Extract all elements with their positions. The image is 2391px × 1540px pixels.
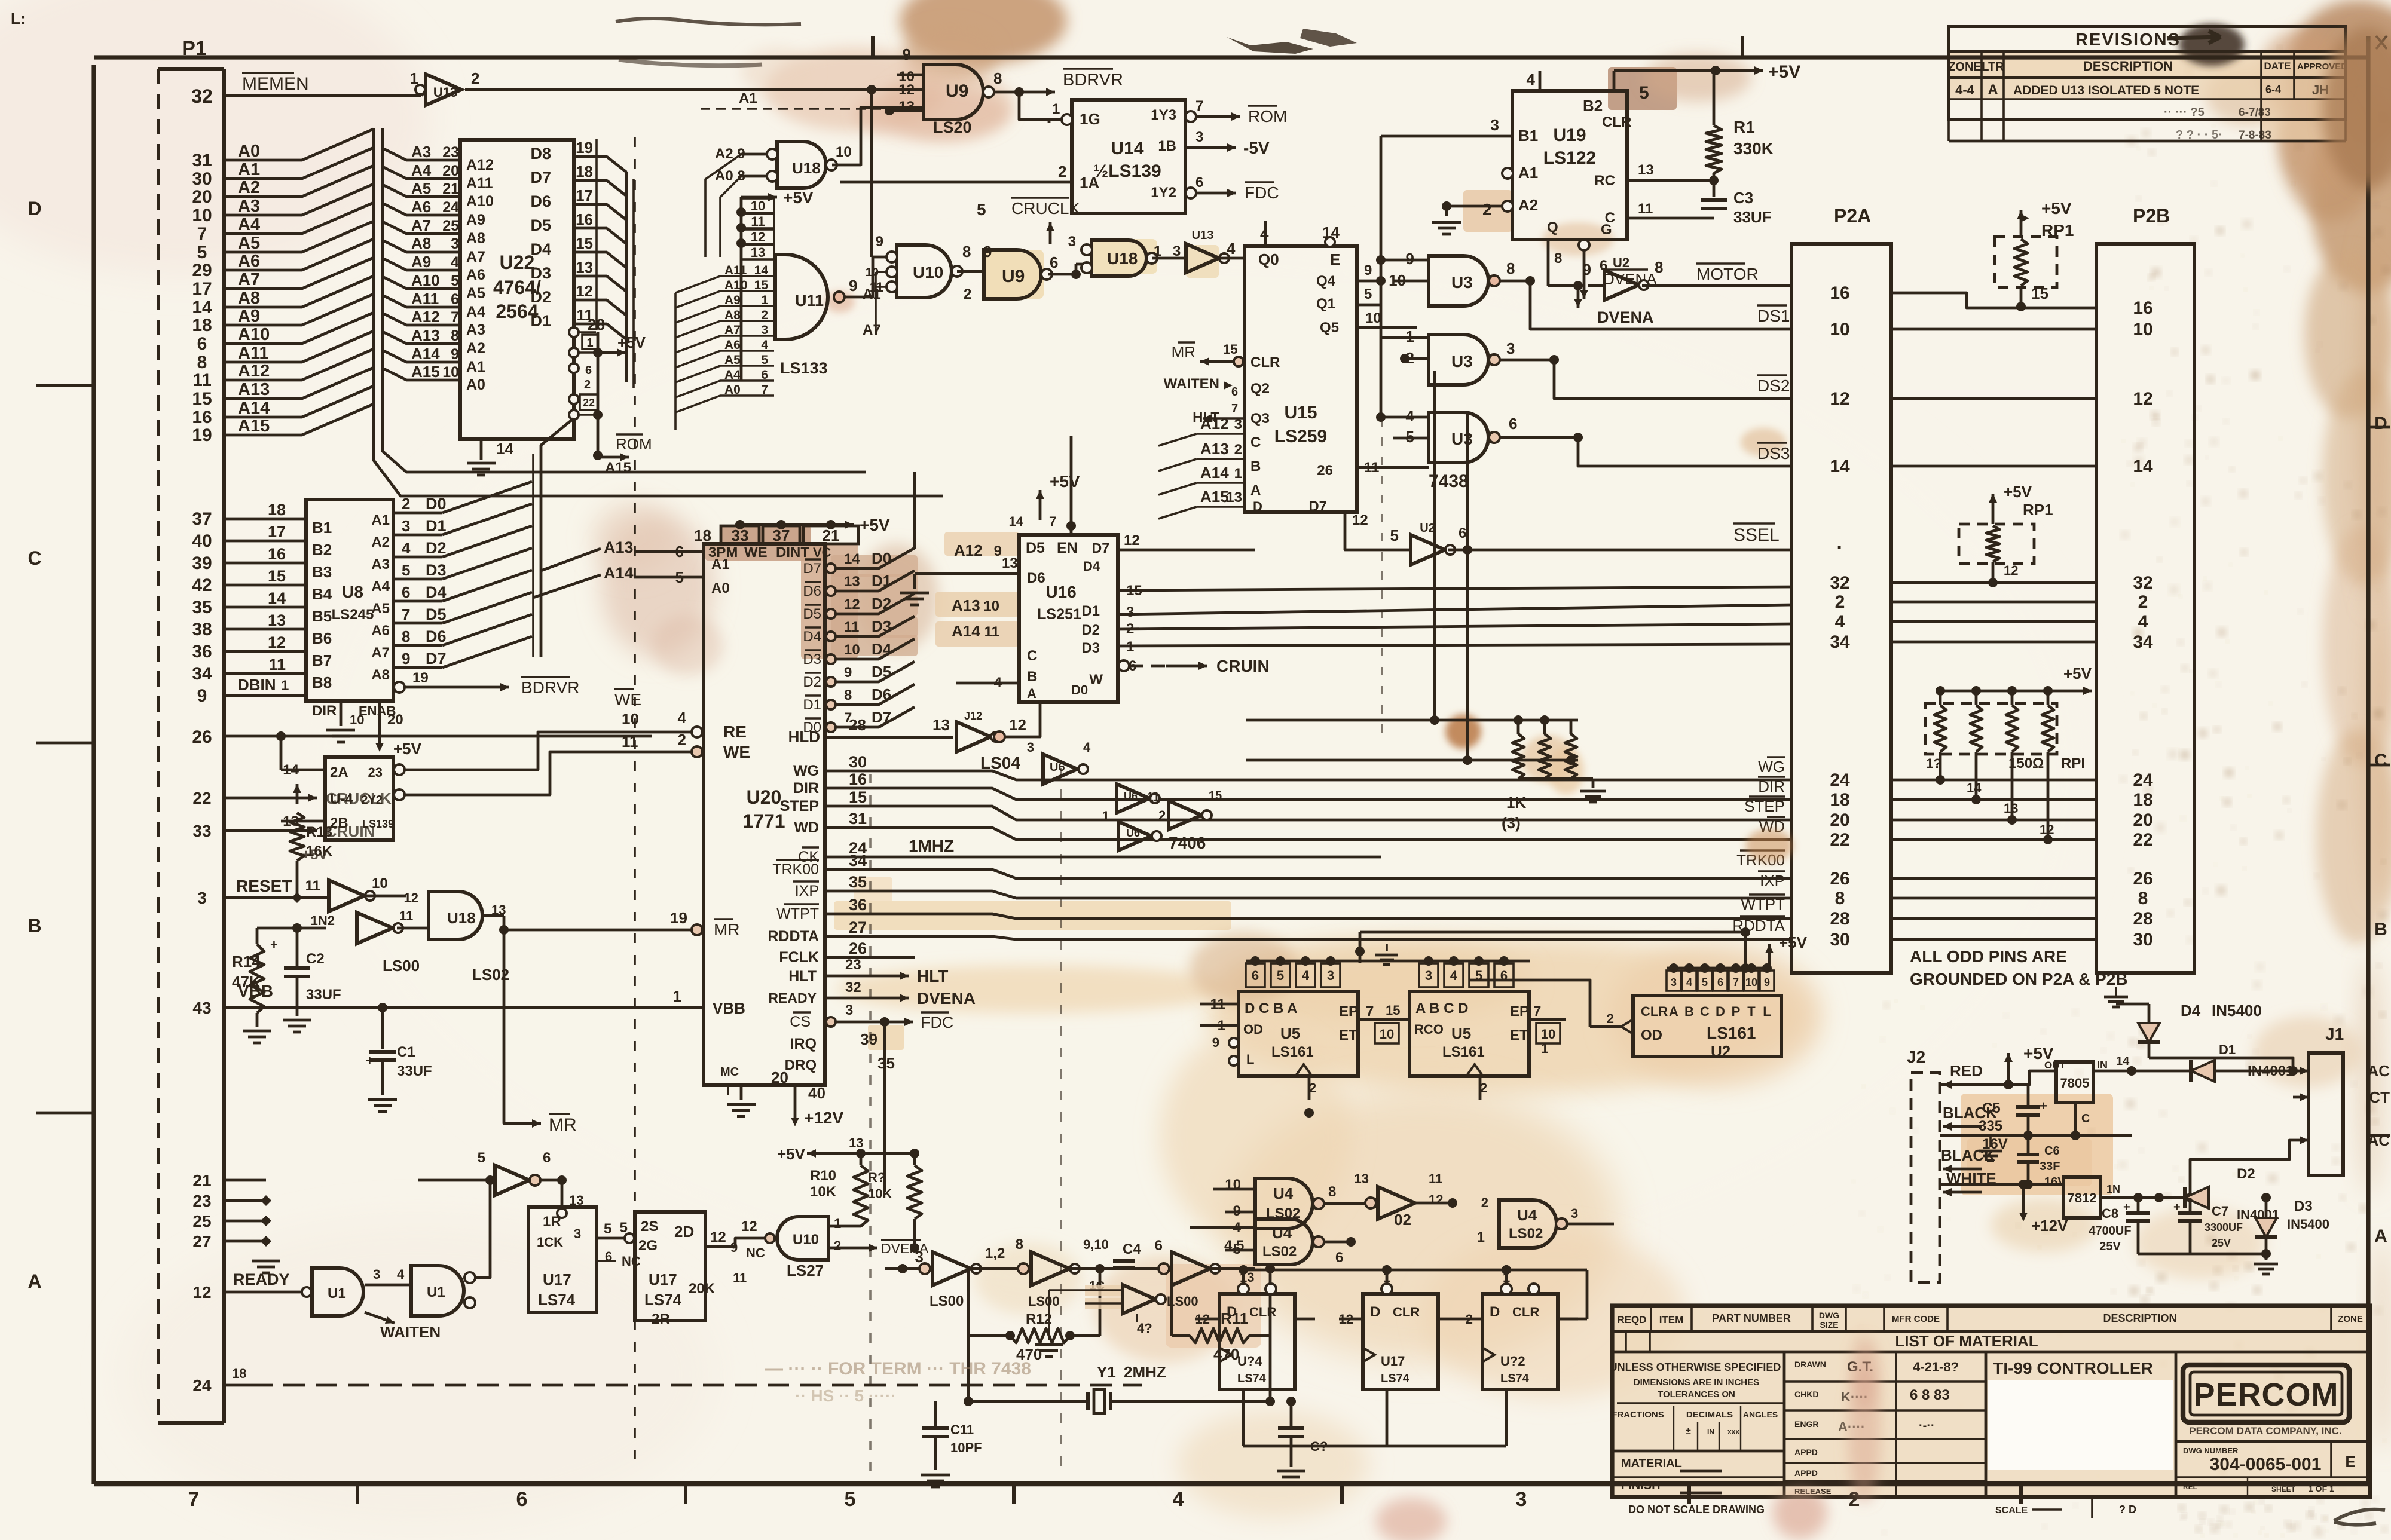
svg-text:FDC: FDC [1245,183,1279,202]
svg-text:8: 8 [197,353,207,372]
svg-text:7: 7 [1366,1003,1374,1019]
svg-text:DIR: DIR [793,780,819,797]
svg-text:U2: U2 [1613,255,1629,270]
svg-text:HLD: HLD [788,728,820,746]
svg-text:B7: B7 [312,651,332,669]
svg-text:CRUIN: CRUIN [1216,657,1270,675]
svg-text:9: 9 [451,346,459,363]
svg-text:6: 6 [1195,174,1203,191]
svg-text:2: 2 [402,495,410,513]
svg-text:6-4: 6-4 [2265,84,2281,96]
svg-text:7812: 7812 [2068,1190,2097,1205]
svg-text:6 8 83: 6 8 83 [1910,1387,1950,1403]
svg-text:7: 7 [1231,402,1238,415]
svg-text:BDRVR: BDRVR [1063,71,1123,90]
svg-text:1: 1 [673,987,681,1005]
svg-text:12: 12 [751,229,765,244]
svg-text:XXX: XXX [1727,1429,1739,1436]
svg-text:D0: D0 [1071,682,1088,697]
svg-text:10: 10 [350,712,364,727]
svg-text:9: 9 [844,665,852,681]
svg-text:Q3: Q3 [1250,411,1270,427]
svg-text:FCLK: FCLK [779,949,819,966]
svg-text:7: 7 [451,309,459,326]
svg-text:10: 10 [372,875,388,892]
svg-text:U17: U17 [649,1270,677,1288]
svg-text:11: 11 [1147,791,1160,804]
svg-text:D5: D5 [426,605,447,623]
svg-text:1K: 1K [1506,794,1526,812]
svg-text:10: 10 [2133,320,2152,339]
svg-text:2: 2 [761,308,768,322]
svg-text:8: 8 [1554,250,1562,267]
svg-text:9: 9 [197,686,207,706]
svg-text:R10: R10 [810,1168,836,1184]
svg-text:36: 36 [192,642,212,662]
svg-text:2: 2 [964,286,971,302]
svg-text:MOTOR: MOTOR [1696,265,1759,283]
svg-text:37: 37 [192,509,212,529]
svg-text:38: 38 [192,620,212,639]
svg-text:2: 2 [1058,163,1066,180]
svg-text:30: 30 [849,753,867,771]
svg-text:10: 10 [1380,1027,1394,1042]
svg-text:3: 3 [1234,417,1242,433]
svg-text:ADDED U13 ISOLATED 5 NOTE: ADDED U13 ISOLATED 5 NOTE [2013,84,2199,97]
svg-text:1G: 1G [1080,110,1100,128]
svg-text:4-4: 4-4 [1955,82,1975,97]
svg-text:3: 3 [1571,1206,1578,1221]
svg-text:22: 22 [583,397,595,409]
svg-text:WD: WD [794,819,819,836]
svg-text:DIMENSIONS ARE IN INCHES: DIMENSIONS ARE IN INCHES [1634,1377,1759,1388]
svg-text:+5V: +5V [777,1145,806,1163]
svg-text:B1: B1 [1518,127,1538,145]
svg-text:U11: U11 [795,292,824,310]
svg-text:11: 11 [268,656,286,673]
svg-text:CRUIN: CRUIN [326,822,375,840]
svg-text:P: P [1732,1004,1741,1019]
svg-text:D4: D4 [530,240,551,258]
svg-text:TI-99 CONTROLLER: TI-99 CONTROLLER [1993,1359,2153,1377]
svg-text:P1: P1 [182,37,207,60]
svg-text:U19: U19 [1553,125,1586,145]
svg-text:14: 14 [754,264,769,277]
svg-text:LS245: LS245 [332,607,374,623]
svg-text:40: 40 [808,1084,825,1102]
svg-text:A0: A0 [711,580,730,596]
svg-text:A7: A7 [411,216,431,234]
svg-text:D2: D2 [426,539,447,557]
svg-text:J1: J1 [2325,1025,2344,1043]
svg-text:4: 4 [761,338,768,352]
svg-text:A8: A8 [238,289,260,308]
svg-text:8: 8 [1328,1184,1336,1200]
svg-text:1MHZ: 1MHZ [909,837,954,855]
svg-text:6: 6 [451,291,459,308]
svg-text:A: A [1027,686,1036,701]
svg-text:23: 23 [192,1192,211,1210]
svg-text:12: 12 [1124,532,1140,549]
svg-text:A6: A6 [238,252,260,271]
svg-text:A6: A6 [411,198,431,216]
svg-text:D3: D3 [803,651,821,668]
svg-text:RPI: RPI [2061,755,2085,771]
svg-text:L: L [1246,1052,1254,1067]
svg-text:A8: A8 [411,234,431,252]
svg-text:U18: U18 [1107,249,1138,268]
svg-text:9: 9 [849,277,857,295]
svg-text:42: 42 [192,575,212,595]
svg-text:11: 11 [751,214,765,229]
svg-text:29: 29 [192,261,212,280]
svg-text:A7: A7 [863,322,881,338]
svg-text:D2: D2 [1081,622,1100,638]
svg-text:IRQ: IRQ [790,1036,817,1052]
svg-text:5: 5 [620,1220,628,1236]
svg-text:15: 15 [1223,342,1237,357]
svg-text:— ··· ·· FOR TERM ··· THR 74: — ··· ·· FOR TERM ··· THR 7438 [765,1359,1031,1379]
svg-text:A9: A9 [466,212,485,228]
svg-text:·· HS ·· 5 ·····: ·· HS ·· 5 ····· [795,1386,897,1405]
svg-text:MC: MC [720,1066,739,1079]
svg-text:B: B [2374,920,2387,939]
svg-text:? D: ? D [2119,1504,2136,1515]
svg-text:DWG: DWG [1819,1311,1839,1320]
svg-text:LS133: LS133 [780,359,828,377]
svg-text:9: 9 [903,45,911,63]
svg-text:3: 3 [1327,968,1334,983]
svg-text:D7: D7 [803,561,821,577]
svg-text:1CK: 1CK [537,1235,563,1250]
svg-text:A13: A13 [604,538,634,556]
svg-text:8: 8 [993,69,1002,87]
svg-text:D5: D5 [803,606,821,622]
svg-text:15: 15 [268,567,286,585]
svg-text:18: 18 [1830,790,1849,810]
svg-text:D3: D3 [426,561,447,579]
svg-text:WE: WE [723,743,750,761]
svg-text:16: 16 [192,408,212,427]
svg-text:U2: U2 [1420,522,1435,535]
svg-text:C7: C7 [2212,1204,2228,1218]
svg-text:16: 16 [849,770,867,788]
svg-text:U17: U17 [1381,1354,1405,1368]
svg-text:D6: D6 [803,583,821,599]
svg-text:20: 20 [1830,810,1849,830]
svg-text:D: D [1716,1004,1725,1019]
svg-text:6: 6 [543,1150,551,1166]
svg-text:A13: A13 [411,326,440,344]
svg-text:1: 1 [761,293,768,307]
svg-text:A8: A8 [371,667,390,683]
svg-text:A13: A13 [1200,440,1229,458]
svg-text:22: 22 [1830,830,1849,850]
svg-text:9: 9 [1764,976,1770,988]
svg-text:9: 9 [876,234,883,250]
svg-text:30: 30 [192,169,212,189]
svg-text:23: 23 [368,765,383,780]
svg-text:U3: U3 [1451,430,1473,448]
svg-text:13: 13 [751,245,765,260]
svg-text:·: · [1836,537,1843,559]
svg-text:A11: A11 [466,175,493,192]
svg-text:A15: A15 [1200,488,1229,506]
svg-text:B1: B1 [312,519,332,537]
svg-text:1: 1 [586,336,593,350]
svg-text:35: 35 [877,1054,895,1072]
svg-text:A4: A4 [466,304,485,320]
svg-text:22: 22 [2133,830,2152,850]
svg-text:OD: OD [1243,1022,1263,1037]
svg-text:22: 22 [192,789,211,807]
svg-text:WAITEN: WAITEN [380,1323,441,1341]
svg-text:2: 2 [1481,1195,1488,1210]
svg-text:30: 30 [1830,930,1849,950]
svg-text:C: C [1605,210,1615,226]
svg-text:A2: A2 [371,534,390,550]
svg-text:AC: AC [2367,1062,2390,1080]
svg-text:DS1: DS1 [1757,307,1790,325]
svg-text:9: 9 [402,650,410,668]
svg-text:15: 15 [192,389,212,409]
svg-text:1: 1 [281,678,289,694]
svg-text:14: 14 [496,440,513,458]
svg-text:R1: R1 [1733,118,1755,136]
svg-text:A5: A5 [238,234,260,253]
svg-text:1N2: 1N2 [311,913,335,928]
svg-text:3300UF: 3300UF [2205,1221,2243,1233]
svg-text:24: 24 [192,1376,212,1395]
svg-text:MR: MR [549,1115,577,1135]
svg-text:5: 5 [1277,968,1284,983]
svg-text:13: 13 [849,1135,863,1150]
svg-text:10: 10 [983,598,999,614]
svg-text:1B: 1B [1158,138,1176,154]
svg-text:13: 13 [1638,162,1654,178]
svg-text:A14: A14 [238,399,270,418]
svg-text:A7: A7 [371,645,390,661]
svg-text:20: 20 [387,712,403,728]
svg-text:43: 43 [192,999,211,1017]
svg-text:3: 3 [574,1226,581,1241]
svg-text:DS2: DS2 [1757,376,1790,395]
svg-text:2: 2 [678,731,686,749]
svg-text:Y1: Y1 [1097,1363,1116,1381]
svg-text:E: E [1330,250,1340,268]
svg-text:7: 7 [402,605,410,623]
svg-text:10: 10 [836,144,852,160]
svg-text:34: 34 [1830,632,1850,652]
svg-text:4700UF: 4700UF [2089,1224,2131,1238]
svg-text:3: 3 [1195,129,1203,145]
svg-text:A5: A5 [466,285,485,302]
svg-text:5: 5 [845,1488,856,1511]
svg-text:DIR: DIR [312,703,337,719]
svg-text:A15: A15 [605,460,631,476]
svg-text:33UF: 33UF [306,987,341,1003]
svg-text:E: E [2345,1453,2355,1471]
svg-text:2: 2 [584,378,591,391]
svg-text:U10: U10 [793,1232,819,1248]
svg-text:2G: 2G [638,1238,658,1254]
svg-text:DATE: DATE [2264,60,2291,72]
svg-text:10K: 10K [868,1186,892,1201]
svg-text:LS161: LS161 [1707,1024,1756,1042]
svg-text:8: 8 [1655,258,1663,276]
svg-text:2: 2 [2138,592,2148,612]
svg-text:U2: U2 [1711,1042,1730,1060]
svg-text:40: 40 [192,531,212,551]
svg-text:LS74: LS74 [1500,1372,1530,1385]
svg-text:MR: MR [714,920,740,939]
svg-text:6: 6 [585,364,592,377]
svg-text:4: 4 [1686,976,1692,988]
svg-text:5: 5 [1475,968,1482,983]
svg-text:18: 18 [232,1366,246,1381]
svg-text:U14: U14 [1111,139,1143,158]
svg-text:3: 3 [845,1002,853,1018]
svg-text:TRK00: TRK00 [772,861,819,878]
svg-text:LS02: LS02 [1262,1244,1297,1260]
svg-text:A1: A1 [238,160,260,179]
svg-text:A14: A14 [411,345,440,363]
svg-text:10PF: 10PF [950,1440,982,1455]
svg-text:D7: D7 [1308,498,1327,515]
svg-text:25V: 25V [2099,1240,2121,1253]
svg-text:7: 7 [761,383,768,397]
svg-text:17: 17 [576,186,593,204]
svg-text:18: 18 [576,163,593,180]
svg-text:34: 34 [192,664,212,684]
svg-text:U3: U3 [1451,352,1473,371]
svg-text:B6: B6 [312,629,332,647]
svg-text:LS00: LS00 [930,1293,964,1309]
svg-text:A7: A7 [466,249,485,265]
svg-text:A7: A7 [724,323,741,337]
svg-text:12: 12 [844,596,860,613]
svg-text:10: 10 [622,710,639,728]
svg-text:D4: D4 [2181,1002,2201,1019]
svg-text:11: 11 [399,908,413,923]
svg-text:Q0: Q0 [1258,250,1279,268]
svg-text:3: 3 [197,889,207,907]
svg-text:D5: D5 [530,216,551,234]
svg-text:DESCRIPTION: DESCRIPTION [2083,59,2173,74]
svg-text:6: 6 [516,1488,528,1511]
svg-text:T: T [1747,1004,1756,1019]
svg-text:CLR: CLR [1602,114,1631,130]
svg-text:BDRVR: BDRVR [521,678,580,697]
svg-text:B: B [1250,458,1261,474]
svg-text:7: 7 [1533,1003,1541,1019]
svg-text:A12: A12 [1200,415,1229,433]
svg-text:C8: C8 [2102,1206,2118,1221]
svg-text:NC: NC [622,1254,641,1269]
svg-text:IN: IN [1707,1428,1714,1436]
svg-text:OD: OD [1641,1027,1662,1043]
svg-text:2MHZ: 2MHZ [1124,1363,1166,1381]
svg-text:GROUNDED ON P2A & P2B: GROUNDED ON P2A & P2B [1910,970,2128,988]
svg-text:A2: A2 [238,178,260,197]
svg-text:LS259: LS259 [1274,427,1327,446]
svg-text:A6: A6 [466,267,485,283]
svg-text:A13: A13 [238,380,270,399]
svg-text:330K: 330K [1733,139,1774,158]
svg-text:4: 4 [402,539,411,557]
svg-text:12: 12 [710,1229,726,1245]
svg-text:5: 5 [761,353,768,367]
svg-text:5: 5 [197,243,207,262]
svg-text:RCO: RCO [1414,1022,1444,1037]
svg-text:A10: A10 [724,278,748,292]
svg-text:33F: 33F [2040,1160,2060,1173]
svg-text:EP: EP [1339,1003,1358,1019]
svg-text:4-21-8?: 4-21-8? [1913,1360,1959,1374]
svg-text:NC: NC [746,1245,765,1260]
svg-text:39: 39 [860,1030,877,1048]
svg-text:DBIN: DBIN [238,676,276,694]
svg-text:ET: ET [1510,1027,1528,1043]
svg-text:B2: B2 [312,541,332,559]
svg-text:A9: A9 [411,253,431,271]
svg-text:+5V: +5V [1050,472,1080,491]
svg-text:335: 335 [1979,1118,2002,1134]
svg-text:B2: B2 [1583,97,1603,115]
svg-text:12: 12 [1429,1192,1443,1207]
svg-text:10K: 10K [810,1184,837,1200]
svg-text:UNLESS OTHERWISE SPECIFIED: UNLESS OTHERWISE SPECIFIED [1610,1361,1781,1373]
svg-text:20: 20 [771,1068,788,1086]
svg-text:4: 4 [1527,71,1536,88]
svg-text:LS122: LS122 [1543,148,1596,168]
svg-text:D C B A: D C B A [1245,1000,1297,1017]
svg-text:24: 24 [442,199,459,216]
svg-text:15: 15 [1386,1003,1400,1018]
svg-text:ROM: ROM [1248,107,1287,125]
svg-text:8: 8 [1016,1236,1023,1253]
svg-text:4: 4 [678,709,687,727]
svg-text:28: 28 [849,716,866,734]
svg-text:DINT: DINT [776,544,809,561]
svg-text:6: 6 [1509,415,1517,433]
svg-text:C5: C5 [1982,1100,2001,1116]
svg-text:26: 26 [2133,869,2152,889]
svg-text:31: 31 [849,810,867,828]
svg-text:U20: U20 [747,786,782,808]
svg-text:4: 4 [1302,968,1310,983]
svg-text:14: 14 [1967,780,1982,795]
svg-text:1: 1 [1052,101,1060,117]
svg-text:19: 19 [576,139,593,157]
svg-text:C: C [1250,434,1261,451]
svg-text:LIST OF MATERIAL: LIST OF MATERIAL [1895,1332,2038,1350]
svg-text:+: + [2123,1201,2130,1214]
svg-text:U6: U6 [1050,761,1065,774]
svg-text:D6: D6 [1027,570,1045,586]
svg-text:A1: A1 [371,512,390,528]
svg-text:25: 25 [442,218,459,234]
svg-text:U13: U13 [1192,229,1214,242]
svg-text:26: 26 [192,727,212,747]
svg-text:6: 6 [1252,968,1259,983]
svg-text:16: 16 [1830,283,1849,303]
svg-text:CHKD: CHKD [1794,1389,1818,1399]
svg-text:P2A: P2A [1834,205,1871,226]
svg-text:33UF: 33UF [397,1063,432,1079]
svg-text:A: A [2374,1226,2387,1246]
svg-text:7: 7 [1733,976,1739,988]
